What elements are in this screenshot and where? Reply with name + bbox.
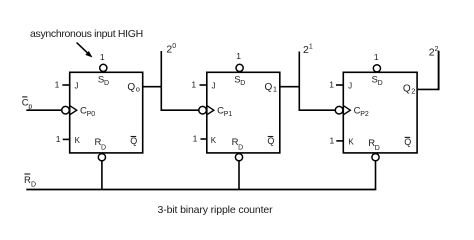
svg-text:D: D xyxy=(378,80,383,87)
svg-text:D: D xyxy=(375,145,380,152)
FF3 clock edge triangle xyxy=(343,106,350,115)
FF2 pin label R_D xyxy=(232,137,244,151)
svg-text:asynchronous input HIGH: asynchronous input HIGH xyxy=(30,28,143,40)
FF3 S_D preset bubble xyxy=(373,65,380,72)
FF2 pin label S_D xyxy=(234,75,245,88)
FF3 R_D clear bubble xyxy=(372,154,379,161)
FF2 clock edge triangle xyxy=(207,106,214,115)
svg-text:1: 1 xyxy=(55,80,60,90)
wire: Q_1 to FF3 clock xyxy=(299,109,336,111)
wire: FF2 R_D drop to reset bus xyxy=(238,161,240,190)
FF3 pin label R_D xyxy=(368,138,380,152)
FF1 pin label C_P0 xyxy=(80,105,95,118)
FF1 S_D preset bubble xyxy=(100,64,107,71)
svg-text:P0: P0 xyxy=(87,111,96,118)
arrow pointing to FF1 S_D logic-1 xyxy=(77,43,93,58)
FF1 pin label Q_o xyxy=(127,82,140,94)
flip-flop FF1 body xyxy=(70,72,143,153)
svg-text:1: 1 xyxy=(236,51,241,61)
FF1 K pin stub xyxy=(63,138,70,140)
svg-text:1: 1 xyxy=(273,85,277,94)
svg-text:D: D xyxy=(238,144,243,151)
svg-text:D: D xyxy=(240,80,245,87)
wire: FF2 Q_1 output to 2^1 node xyxy=(280,86,300,88)
wire: FF1 R_D drop to reset bus xyxy=(101,161,103,190)
wire: 2^0 vertical riser xyxy=(160,51,162,110)
svg-text:Q: Q xyxy=(127,82,135,93)
wire: FF1 Q_o output to 2^0 node xyxy=(143,86,162,88)
wire: C̄_p input to FF1 clock bubble xyxy=(26,109,62,111)
FF2 pin label Q_1 xyxy=(265,82,278,94)
FF1 pin label Q̄ xyxy=(130,136,137,146)
FF1 clock bubble xyxy=(62,106,70,114)
svg-text:K: K xyxy=(348,137,354,146)
wire: FF3 Q_2 output to 2^2 node xyxy=(417,88,439,90)
svg-text:R: R xyxy=(24,175,31,186)
wire: 2^2 vertical riser xyxy=(438,51,440,90)
svg-text:Q: Q xyxy=(130,136,137,146)
svg-text:D: D xyxy=(31,181,36,188)
wire: 2^1 vertical riser xyxy=(298,52,300,111)
svg-text:1: 1 xyxy=(374,52,379,62)
svg-text:K: K xyxy=(211,136,217,145)
FF3 clock bubble xyxy=(335,106,343,114)
svg-text:2: 2 xyxy=(411,87,415,96)
FF3 pin label Q_2 xyxy=(403,84,416,96)
svg-text:J: J xyxy=(348,81,352,90)
svg-text:1: 1 xyxy=(100,52,105,62)
svg-text:1: 1 xyxy=(193,134,198,144)
svg-text:J: J xyxy=(212,81,216,90)
svg-text:1: 1 xyxy=(56,134,61,144)
FF2 pin label Q̄ xyxy=(267,136,274,146)
FF2 J pin stub xyxy=(200,84,207,86)
svg-text:K: K xyxy=(75,136,81,145)
svg-text:0: 0 xyxy=(172,43,176,50)
svg-text:Q: Q xyxy=(404,137,411,147)
wire: Q_o to FF2 clock xyxy=(161,109,199,111)
FF2 clock bubble xyxy=(199,106,207,114)
svg-text:P1: P1 xyxy=(224,111,233,118)
FF2 pin label C_P1 xyxy=(217,105,232,118)
FF2 R_D clear bubble xyxy=(235,154,242,161)
FF1 pin label S_D xyxy=(98,75,109,88)
FF3 pin label Q̄ xyxy=(404,137,411,147)
svg-text:1: 1 xyxy=(329,136,334,146)
svg-text:Q: Q xyxy=(265,82,273,93)
net label 2^2 xyxy=(429,46,439,59)
FF3 pin label C_P2 xyxy=(354,105,369,118)
flip-flop FF3 body xyxy=(343,72,417,153)
svg-text:J: J xyxy=(75,81,79,90)
FF1 clock edge triangle xyxy=(70,106,77,115)
svg-text:Q: Q xyxy=(403,84,411,95)
wire: R̄_D reset bus xyxy=(26,189,376,191)
FF1 J pin stub xyxy=(62,84,69,86)
svg-text:Q: Q xyxy=(267,136,274,146)
svg-text:D: D xyxy=(104,80,109,87)
svg-text:o: o xyxy=(136,85,140,94)
svg-text:1: 1 xyxy=(191,80,196,90)
wire: FF3 R_D drop to reset bus xyxy=(375,161,377,190)
net label 2^0 xyxy=(166,43,176,56)
FF3 J pin stub xyxy=(336,84,343,86)
svg-text:D: D xyxy=(101,144,106,151)
net label R̄_D xyxy=(24,174,36,188)
FF1 R_D clear bubble xyxy=(98,154,105,161)
net label 2^1 xyxy=(303,43,313,56)
FF3 pin label S_D xyxy=(372,75,383,88)
svg-text:3-bit binary ripple counter: 3-bit binary ripple counter xyxy=(158,204,274,216)
FF3 K pin stub xyxy=(336,140,343,142)
flip-flop FF2 body xyxy=(207,72,280,153)
FF2 K pin stub xyxy=(201,138,207,140)
FF2 S_D preset bubble xyxy=(236,64,243,71)
input label C̄_p xyxy=(22,97,33,111)
svg-text:1: 1 xyxy=(329,80,334,90)
svg-text:1: 1 xyxy=(309,43,313,50)
FF1 pin label R_D xyxy=(95,137,107,151)
svg-text:P2: P2 xyxy=(360,111,369,118)
